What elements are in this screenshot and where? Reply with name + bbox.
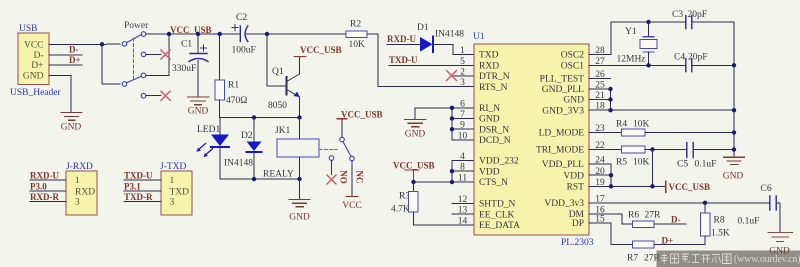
svg-text:20pF: 20pF	[688, 10, 708, 20]
capacitor C1 330uF	[172, 34, 208, 96]
svg-text:D+: D+	[662, 236, 674, 246]
resistor R8 1.5K	[700, 203, 730, 245]
svg-text:12: 12	[458, 195, 468, 205]
svg-text:R6: R6	[628, 211, 639, 221]
svg-text:D1: D1	[417, 23, 429, 33]
node junction rail-R1	[218, 32, 222, 36]
svg-text:DSR_N: DSR_N	[479, 125, 509, 135]
svg-text:GND: GND	[289, 213, 310, 223]
power VCC_USB right	[666, 181, 711, 192]
svg-text:P3.0: P3.0	[30, 181, 47, 191]
wire D- stub	[49, 54, 82, 56]
svg-text:CTS_N: CTS_N	[479, 178, 508, 188]
wire GND from USB	[49, 76, 71, 112]
node junction rail-switch	[167, 32, 171, 36]
svg-text:VCC_USB: VCC_USB	[669, 182, 711, 192]
wire TXD-R to header	[124, 201, 161, 203]
svg-text:C5: C5	[677, 160, 688, 170]
svg-text:REALY: REALY	[263, 170, 294, 180]
svg-text:R5: R5	[616, 158, 627, 168]
svg-text:OSC2: OSC2	[561, 51, 584, 61]
svg-text:2: 2	[460, 68, 465, 78]
svg-text:VDD_3v3: VDD_3v3	[544, 199, 584, 209]
resistor R7 27R	[589, 223, 705, 264]
svg-text:13: 13	[458, 206, 468, 216]
svg-text:Q1: Q1	[272, 67, 284, 77]
svg-text:GND: GND	[61, 123, 82, 133]
wire TXD-U to RXD pin5	[389, 64, 474, 66]
wire from R5 node down to VDD row	[652, 150, 654, 187]
wire PLL_TEST stub pin26	[589, 78, 611, 80]
svg-text:RXD-U: RXD-U	[387, 34, 416, 44]
svg-text:D-: D-	[69, 45, 79, 55]
svg-text:VCC: VCC	[342, 201, 362, 211]
svg-text:GND: GND	[405, 130, 426, 140]
switch Power (DPDT)	[102, 21, 170, 100]
svg-text:VCC_USB: VCC_USB	[393, 161, 435, 171]
svg-text:TXD: TXD	[170, 188, 190, 198]
ground C1	[188, 97, 210, 105]
node junction rail-Q1base	[265, 32, 269, 36]
pin names U1 left	[479, 51, 520, 232]
ground relay	[289, 200, 310, 207]
wire relay to ground	[299, 179, 301, 199]
svg-text:TXD-R: TXD-R	[124, 192, 153, 202]
svg-text:EE_DATA: EE_DATA	[479, 221, 520, 231]
transistor Q1 8050	[267, 34, 300, 118]
svg-text:R1: R1	[228, 81, 239, 91]
svg-text:14: 14	[458, 217, 468, 227]
IC U1 PL2303 body	[473, 32, 594, 248]
svg-text:100uF: 100uF	[232, 46, 256, 56]
wire R2 to RTS_N pin3	[367, 34, 474, 87]
svg-text:GND: GND	[23, 72, 44, 82]
wire P3.0 to header	[30, 190, 66, 192]
svg-text:VDD_PLL: VDD_PLL	[542, 160, 584, 170]
svg-text:GND_PLL: GND_PLL	[542, 85, 584, 95]
svg-text:D2: D2	[241, 131, 253, 141]
svg-text:8050: 8050	[268, 101, 287, 111]
wire D+ stub	[49, 64, 82, 66]
wire C4 to right rail	[693, 64, 734, 66]
svg-text:SHTD_N: SHTD_N	[479, 200, 516, 210]
svg-text:EE_CLK: EE_CLK	[479, 210, 514, 220]
wire P3.1 to header	[124, 190, 161, 192]
capacitor C3 20pF	[672, 10, 707, 29]
diode D1 IN4148	[417, 23, 464, 52]
wire VDD_PLL/VDD/RST bus pins 24,20,19	[589, 164, 611, 187]
ground USB	[61, 113, 82, 121]
wire RXD-U to D1	[387, 43, 420, 45]
capacitor C6 0.1uF	[738, 184, 781, 232]
svg-text:6: 6	[460, 99, 465, 109]
svg-text:27R: 27R	[645, 211, 662, 221]
connector J-RXD	[66, 162, 97, 215]
svg-text:D-: D-	[671, 215, 681, 225]
wire GND bus pins 25,21,18	[589, 88, 611, 90]
svg-text:1: 1	[460, 46, 465, 56]
svg-text:1: 1	[75, 176, 80, 186]
svg-text:3: 3	[170, 198, 175, 208]
svg-text:Y1: Y1	[625, 27, 637, 37]
wire VCC_USB rail	[146, 33, 240, 35]
svg-text:PL.2303: PL.2303	[561, 238, 594, 248]
svg-text:NO: NO	[339, 170, 349, 184]
connector USB_Header	[10, 24, 61, 98]
svg-text:3: 3	[460, 78, 465, 88]
svg-text:NC: NC	[355, 171, 365, 184]
node VCC junction	[100, 42, 104, 46]
pin names U1 right	[536, 51, 585, 229]
svg-text:R2: R2	[350, 20, 361, 30]
power VCC_USB at Q1 collector	[294, 45, 342, 57]
svg-text:GND_3V3: GND_3V3	[542, 106, 584, 116]
wire VDD bus pins 4,8,11	[414, 181, 475, 183]
pin numbers U1 left	[458, 46, 468, 227]
svg-text:C3: C3	[672, 10, 683, 20]
svg-text:VCC_USB: VCC_USB	[341, 110, 383, 120]
svg-text:7: 7	[460, 110, 465, 120]
svg-text:10K: 10K	[349, 40, 366, 50]
svg-text:VDD: VDD	[479, 167, 500, 177]
wire OSC2 pin28 to crystal/C3	[589, 22, 685, 55]
power VCC at NC	[342, 197, 362, 212]
crystal Y1 12MHz	[617, 22, 658, 65]
wire TXD-U to header	[124, 179, 161, 181]
diode D2 IN4148	[224, 118, 262, 180]
node xtal top junction	[646, 20, 650, 24]
ground right rail	[724, 157, 745, 164]
svg-text:LD_MODE: LD_MODE	[539, 129, 585, 139]
svg-text:GND: GND	[479, 115, 500, 125]
svg-text:10K: 10K	[633, 158, 650, 168]
svg-text:VCC: VCC	[24, 40, 44, 50]
svg-text:RXD: RXD	[75, 188, 95, 198]
svg-text:GND: GND	[769, 247, 790, 257]
svg-text:10: 10	[458, 131, 468, 141]
svg-text:C1: C1	[181, 40, 192, 50]
svg-text:D+: D+	[31, 61, 43, 71]
svg-text:R7: R7	[627, 254, 638, 264]
connector J-TXD	[160, 162, 192, 215]
svg-text:RXD: RXD	[479, 62, 499, 72]
svg-text:0.1uF: 0.1uF	[695, 160, 717, 170]
resistor R1 470ohm	[215, 34, 247, 118]
svg-text:VDD: VDD	[563, 172, 584, 182]
svg-text:3: 3	[75, 198, 80, 208]
svg-text:5: 5	[460, 57, 465, 67]
svg-text:9: 9	[460, 121, 465, 131]
resistor R6 27R	[589, 211, 686, 228]
wire VDD_3v3 pin17 row	[589, 202, 769, 204]
svg-text:TXD: TXD	[479, 51, 499, 61]
watermark band	[657, 233, 800, 267]
wire RXD-U to header	[30, 179, 66, 181]
capacitor C5 0.1uF	[677, 143, 736, 170]
svg-text:D-: D-	[33, 51, 43, 61]
svg-text:TXD-U: TXD-U	[124, 171, 153, 181]
wire D1 to TXD pin1	[433, 44, 474, 54]
svg-text:1: 1	[170, 176, 175, 186]
wire C3 to right rail	[693, 22, 734, 157]
svg-text:PLL_TEST: PLL_TEST	[540, 75, 585, 85]
wire bus pins 7,9,10	[451, 108, 453, 140]
svg-text:IN4148: IN4148	[224, 159, 253, 169]
svg-text:C4: C4	[674, 53, 685, 63]
svg-text:TRI_MODE: TRI_MODE	[536, 146, 584, 156]
svg-text:GND: GND	[563, 96, 584, 106]
svg-text:USB_Header: USB_Header	[10, 88, 61, 98]
svg-text:RTS_N: RTS_N	[479, 83, 508, 93]
svg-text:P3.1: P3.1	[124, 181, 141, 191]
svg-text:VCC_USB: VCC_USB	[300, 45, 342, 55]
node junction rail-C1	[196, 32, 200, 36]
pin numbers U1 right	[595, 46, 605, 224]
svg-text:DCD_N: DCD_N	[479, 136, 511, 146]
wire VCC from USB to switch	[49, 43, 102, 45]
resistor R5 10K	[589, 146, 686, 167]
svg-text:D+: D+	[69, 55, 81, 65]
resistor R4 10K	[589, 120, 736, 137]
wire RXD-R to header	[30, 201, 66, 203]
svg-text:10K: 10K	[633, 120, 650, 130]
svg-text:470Ω: 470Ω	[226, 96, 247, 106]
capacitor C2 100uF	[232, 13, 256, 56]
svg-text:4: 4	[460, 152, 465, 162]
wire DTR_N stub pin2 with X	[453, 75, 474, 77]
svg-text:DP: DP	[572, 219, 584, 229]
svg-text:RST: RST	[567, 183, 585, 193]
svg-text:0.1uF: 0.1uF	[738, 217, 760, 227]
LED LED1	[197, 118, 230, 180]
svg-text:330uF: 330uF	[172, 64, 196, 74]
svg-text:11: 11	[458, 174, 467, 184]
svg-text:R8: R8	[714, 216, 725, 226]
wire SHTD_N stub pin12	[452, 203, 474, 205]
svg-text:C6: C6	[761, 184, 772, 194]
relay JK1 REALY	[263, 118, 319, 180]
wire LED/D2 bottom	[220, 178, 300, 180]
svg-text:U1: U1	[473, 32, 485, 42]
svg-text:IN4148: IN4148	[435, 30, 464, 40]
svg-text:RI_N: RI_N	[479, 104, 500, 114]
svg-text:JK1: JK1	[275, 126, 291, 136]
svg-text:Power: Power	[124, 21, 149, 31]
svg-text:TXD-U: TXD-U	[389, 55, 418, 65]
svg-text:1.5K: 1.5K	[711, 229, 730, 239]
svg-text:12MHz: 12MHz	[617, 55, 646, 65]
svg-text:VDD_232: VDD_232	[479, 157, 519, 167]
capacitor C4 20pF	[674, 53, 708, 72]
svg-text:RXD-U: RXD-U	[30, 171, 59, 181]
svg-text:RXD-R: RXD-R	[30, 192, 59, 202]
svg-text:GND: GND	[188, 107, 209, 117]
svg-text:DTR_N: DTR_N	[479, 72, 510, 82]
svg-text:8: 8	[460, 163, 465, 173]
svg-text:OSC1: OSC1	[561, 62, 584, 72]
svg-text:R4: R4	[616, 120, 627, 130]
svg-text:20pF: 20pF	[688, 53, 708, 63]
wire LED/D2 top	[220, 117, 300, 119]
svg-text:C2: C2	[236, 13, 247, 23]
svg-text:USB: USB	[19, 24, 37, 34]
svg-text:(www.ourdev.cn): (www.ourdev.cn)	[734, 254, 800, 265]
switch JK contact (NO/NC)	[319, 110, 383, 197]
svg-text:LED1: LED1	[197, 125, 220, 135]
wire EE_CLK stub pin13	[452, 213, 474, 215]
ground at RI_N	[415, 107, 474, 109]
svg-text:GND: GND	[723, 172, 744, 182]
svg-text:4.7K: 4.7K	[391, 205, 410, 215]
power VCC_USB at VDD pins	[393, 161, 435, 183]
resistor R2 10K	[346, 20, 367, 51]
wire OSC1 pin27 to C4	[589, 64, 685, 66]
resistor R3 4.7K	[391, 182, 474, 225]
